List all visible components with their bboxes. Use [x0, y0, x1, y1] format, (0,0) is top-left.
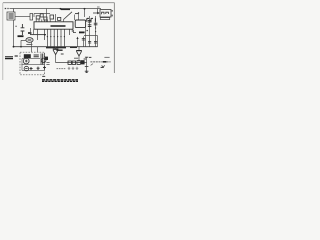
inner wire row2	[21, 64, 44, 66]
resistor R4	[44, 17, 47, 20]
IC1 main box	[34, 22, 73, 29]
wire from switch down	[63, 20, 65, 23]
label 240V mains	[5, 57, 13, 59]
dark blob left of shelf	[80, 31, 84, 33]
small mark right of mic2	[89, 56, 91, 58]
wire bus to arrow	[97, 9, 99, 14]
slash mark under caption row	[91, 64, 93, 66]
mic MIC2 top bar	[76, 50, 82, 52]
label beside T1	[34, 55, 39, 57]
thick segment of lower bus left of mic2	[70, 46, 77, 48]
component box row b4 dark	[81, 60, 85, 64]
wire upper link	[34, 14, 50, 18]
wire drops from bus to enclosure	[32, 47, 38, 53]
signal line lower	[56, 62, 87, 64]
mic MIC1 top bar	[53, 48, 59, 50]
inner wire row	[22, 58, 40, 60]
text above row	[74, 57, 78, 59]
figure caption bar	[42, 79, 78, 81]
sub bus under IC left	[30, 34, 46, 36]
component box row b1	[68, 61, 71, 64]
capacitor cluster mark1	[30, 67, 33, 70]
IC pin stubs above	[36, 19, 50, 21]
component box row b3	[77, 61, 80, 65]
node dot x78.5	[78, 12, 79, 13]
bracket right of IC	[73, 30, 76, 33]
relay marks inside	[28, 39, 32, 41]
v mark below caption	[102, 65, 105, 67]
label near MIC1	[61, 53, 64, 55]
component box row b2	[72, 61, 75, 64]
fuse block FS1 box	[7, 12, 15, 20]
resistor R3	[40, 14, 43, 17]
node dot left bus	[13, 46, 15, 48]
small text right upper	[104, 56, 109, 58]
IC pins short	[38, 29, 70, 40]
node junction on bus x84	[84, 8, 86, 10]
value labels under component row	[57, 68, 67, 70]
border frame left	[2, 3, 4, 80]
resistor R1 vertical	[30, 14, 33, 21]
diode D1 box	[50, 15, 54, 19]
component inside box 2	[106, 12, 109, 14]
wire x33.5 to sub bus	[33, 29, 35, 34]
dark word in caption row	[103, 61, 106, 63]
wire vertical x46.5	[46, 9, 48, 23]
drop from bus to MIC2	[78, 47, 80, 51]
capacitor C3 ticks	[88, 20, 92, 22]
caption text row right	[90, 61, 110, 63]
capacitor tick upper on drop	[85, 56, 88, 58]
label ac	[15, 55, 18, 57]
text under bus	[56, 49, 62, 51]
node junction on bus x60	[60, 8, 62, 10]
capacitor C4 ticks	[88, 25, 92, 27]
small mark above caption bar	[42, 75, 45, 77]
wire from fuse block right	[15, 16, 30, 18]
TR2 marks	[25, 68, 27, 70]
wire from relay down	[31, 42, 33, 47]
capacitor C9 on wire x83.5	[83, 37, 85, 47]
transformer T1 block	[24, 54, 31, 58]
main lower bus	[14, 46, 98, 48]
arrow to PSU box	[93, 12, 98, 14]
capacitor ticks on drop	[85, 66, 89, 68]
capacitor C7 ticks lower	[94, 41, 97, 43]
arrow mark lower right	[101, 66, 104, 68]
relay coil oval	[26, 38, 33, 43]
pin junction dots	[47, 36, 48, 37]
wire left vertical from fuse	[13, 20, 15, 47]
capacitor C1 blob	[44, 22, 48, 24]
label near MIC2	[84, 58, 86, 60]
IC pins below long	[47, 29, 64, 47]
wire x78.5	[78, 13, 80, 21]
shallow box under regulator	[100, 18, 109, 20]
label IC1 left	[28, 32, 31, 34]
switch S1 arm diagonal	[64, 12, 73, 20]
wire x30.5	[30, 28, 32, 35]
dark box right of enclosure	[45, 57, 48, 60]
wire with up arrow x77.5	[77, 38, 79, 47]
component inside box 1	[102, 12, 104, 14]
capacitor cluster mark3	[43, 66, 46, 70]
wire drop to fuse box	[13, 9, 15, 13]
mic MIC1 lead	[55, 55, 57, 63]
label under relay	[26, 43, 32, 45]
tiny text above psu	[97, 6, 100, 8]
wire top supply bus	[10, 8, 102, 10]
capacitor C8 left	[21, 24, 25, 35]
winding circle right	[41, 58, 46, 63]
border frame right	[113, 3, 115, 73]
capacitor C2 tick	[75, 13, 78, 15]
tiny dash right of wire	[15, 25, 17, 27]
TR1 marks	[25, 60, 28, 63]
wire x95.6 vertical	[95, 16, 97, 47]
label PR1	[87, 18, 89, 22]
transistor TR1 circle	[23, 58, 29, 64]
pin number dots above stubs	[36, 18, 50, 20]
wire x85.6 vertical	[85, 28, 87, 47]
wire x89.6 vertical	[89, 16, 91, 47]
drop from bus to MIC1	[55, 47, 57, 50]
capacitor cluster mark2	[37, 67, 40, 70]
timer box right	[75, 20, 85, 28]
transistor TR2 circle	[24, 66, 29, 71]
label v right of box	[111, 10, 113, 16]
dashed enclosure box	[20, 52, 45, 75]
label text right of IC	[79, 31, 84, 33]
wire x84.5 drop from bus	[84, 9, 86, 18]
wire x74.5	[74, 15, 76, 21]
capacitor C5 ticks	[94, 23, 98, 25]
mic MIC2 funnel	[76, 51, 81, 56]
transformer core bars	[41, 54, 44, 65]
capacitor C6 ticks lower	[88, 41, 91, 43]
node dots right column	[95, 27, 96, 28]
inner wire row3	[22, 69, 44, 71]
thick segment of lower bus	[46, 47, 66, 49]
regulator box top right	[100, 10, 111, 18]
wire right shelf	[84, 36, 98, 47]
switch S1 label on bus	[61, 8, 70, 10]
wire x55.5	[55, 14, 57, 22]
node dot at relay wire bus	[20, 46, 22, 48]
IC label text bar	[51, 25, 66, 27]
marks right of enclosure	[46, 63, 49, 65]
inner wire left vertical	[21, 59, 23, 71]
ground blob text	[18, 35, 24, 37]
node dot sub bus	[44, 34, 46, 36]
wire from relay left	[21, 40, 26, 46]
IC pin stub right	[71, 29, 73, 32]
ground GND bars	[85, 71, 89, 72]
wire right drop	[86, 57, 88, 72]
resistor R2	[36, 16, 40, 19]
resistor R5	[58, 17, 61, 20]
mic MIC2 lead	[78, 56, 80, 63]
border frame top	[3, 2, 115, 4]
mic MIC1 funnel	[53, 50, 58, 55]
fuse block text rows	[9, 14, 14, 18]
mains label N	[5, 8, 9, 10]
